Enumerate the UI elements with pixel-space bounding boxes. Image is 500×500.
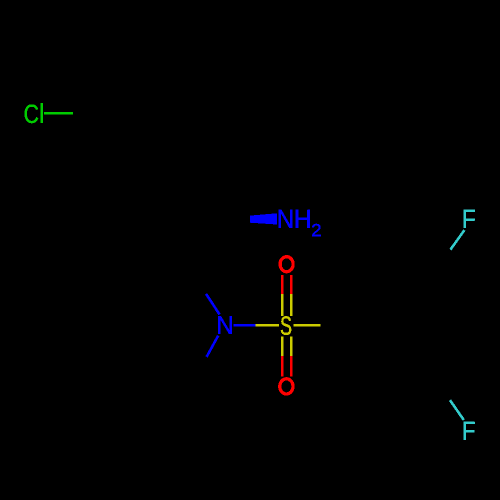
bond CH2-N blue half — [206, 294, 220, 315]
atom label N (sulfonamide) — [218, 316, 231, 333]
bond C3'-F cyan half — [450, 230, 464, 250]
bond N-S blue half — [233, 324, 255, 327]
bond N-CH3 black half — [186, 357, 207, 388]
bond Cl-ring black half — [73, 112, 112, 115]
bond CH2-N black half — [186, 262, 206, 294]
S=O top double bond red halves — [282, 275, 291, 294]
bond S-aryl yellow half — [294, 324, 321, 327]
bond N-S yellow half — [256, 324, 280, 327]
bond C3'-F black half — [432, 250, 451, 281]
bond Cl-ring green half — [44, 112, 73, 115]
bond S-aryl black half — [321, 324, 356, 327]
wedge bond stereocenter-NH2 black half — [215, 216, 250, 223]
chlorophenyl ring (carbon bonds, black) — [83, 114, 205, 220]
S=O bottom double bond red halves — [282, 356, 291, 376]
bond C3-stereocenter (black) — [205, 167, 215, 220]
atom label NH2 (H glyph) — [296, 210, 310, 228]
bond C5'-F cyan half — [450, 400, 464, 420]
wedge bond stereocenter-NH2 blue half — [250, 213, 277, 224]
S=O bottom double bond yellow halves — [282, 336, 291, 356]
atom label O bottom — [280, 379, 293, 394]
atom label S — [281, 316, 291, 335]
S=O top double bond yellow halves — [282, 294, 291, 316]
atom label NH2 (subscript 2) — [312, 224, 321, 236]
atom label NH2 (N glyph) — [279, 210, 292, 228]
atom label O top — [280, 257, 293, 272]
atom label F top — [464, 210, 475, 228]
atom label Cl (l glyph) — [40, 103, 42, 123]
difluorophenyl ring (carbon bonds, black) — [355, 281, 457, 370]
chlorophenyl ring inner double bonds — [88, 123, 200, 211]
atom label Cl (C glyph) — [25, 105, 38, 124]
bond N-CH3 blue half — [207, 336, 219, 357]
atom label F bottom — [464, 422, 475, 440]
bond stereocenter-CH2 (black) — [186, 220, 215, 263]
bond C5'-F black half — [431, 370, 450, 401]
